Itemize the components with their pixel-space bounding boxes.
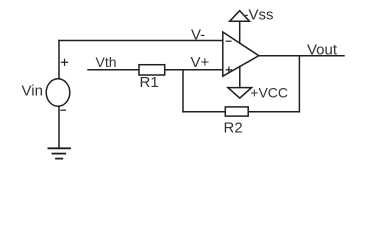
power symbol -Vss <box>230 11 250 22</box>
pin plus marker <box>226 67 231 72</box>
power symbol +VCC <box>228 88 252 99</box>
resistor R1 <box>139 65 165 75</box>
ground <box>48 148 70 158</box>
op-amp U1 <box>223 32 259 76</box>
wire feedback bottom <box>183 111 299 113</box>
wire Vin bottom to ground <box>58 106 60 148</box>
plus polarity mark <box>61 59 67 65</box>
svg-text:Vth: Vth <box>96 54 117 70</box>
svg-text:Vin: Vin <box>22 83 43 100</box>
wire Vth to V+ input <box>88 69 223 71</box>
wire output <box>259 55 344 57</box>
minus polarity mark <box>61 109 66 111</box>
wire output down to feedback <box>298 56 300 112</box>
svg-text:R2: R2 <box>224 119 243 136</box>
wire negative supply pin <box>239 67 241 88</box>
wire V- horizontal <box>59 40 223 42</box>
resistor R2 <box>225 107 248 116</box>
pin minus marker <box>226 40 231 42</box>
svg-text:V-: V- <box>191 26 205 43</box>
voltage source Vin <box>46 79 70 106</box>
svg-text:V+: V+ <box>191 54 210 71</box>
svg-text:+VCC: +VCC <box>250 84 288 100</box>
svg-text:Vout: Vout <box>307 41 338 58</box>
wire Vin top to V- corner <box>58 41 60 79</box>
svg-text:-Vss: -Vss <box>244 6 274 23</box>
wire junction V+ down to feedback <box>182 70 184 112</box>
svg-text:R1: R1 <box>140 74 159 91</box>
wire positive supply pin <box>239 21 241 43</box>
